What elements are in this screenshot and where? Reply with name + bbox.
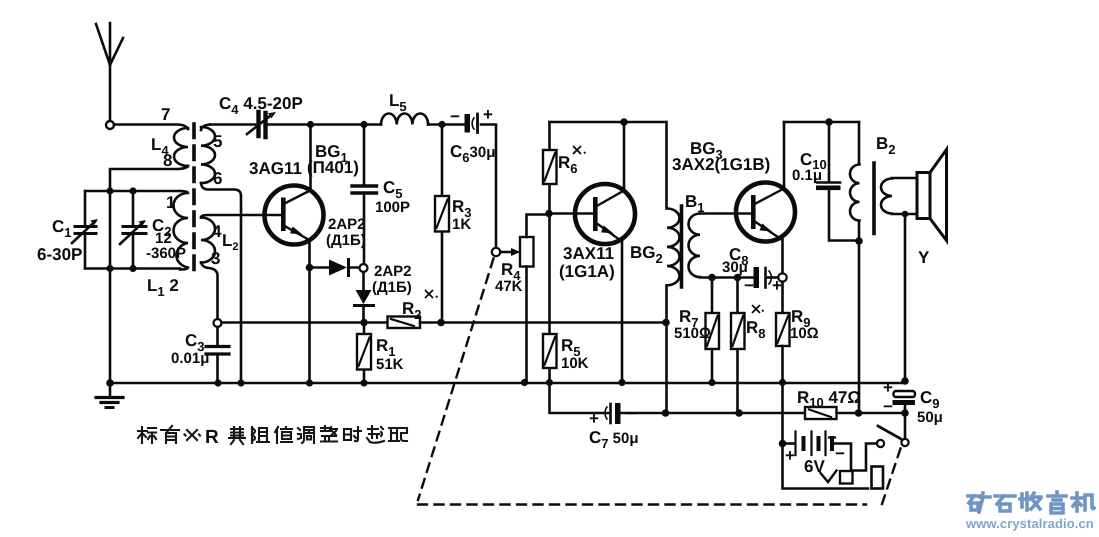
asterisk R2 [425,290,438,298]
svg-text:R6: R6 [558,153,578,176]
svg-text:2AP2: 2AP2 [374,263,412,280]
resistor R9 [776,313,790,346]
transistor BG1 [265,186,324,245]
junction dots stage2 [521,118,743,417]
capacitor C6 [465,114,478,133]
switch contact left (open circle) [877,440,884,447]
svg-text:+: + [883,378,893,397]
char biao [138,427,156,443]
wire BG2 emitter down [621,242,624,384]
inductor L5 [381,113,428,124]
asterisk R8 [752,305,764,313]
wire stage3 top [784,121,859,124]
svg-text:C5: C5 [383,178,403,201]
char kuang [968,493,990,512]
wire stage1 top left [210,123,255,126]
svg-text:50μ: 50μ [917,409,943,426]
svg-text:100P: 100P [375,199,410,216]
transformer B2 core [872,163,876,234]
svg-text:3: 3 [211,249,220,268]
svg-text:R10 47Ω: R10 47Ω [797,388,861,410]
wire L2 pin3 down to node [201,263,218,320]
junction dot ground-left [106,379,114,387]
svg-text:47K: 47K [495,278,523,295]
ground symbol [96,383,123,408]
asterisk R6 [573,146,586,154]
svg-text:3AX2(1G1B): 3AX2(1G1B) [672,155,770,174]
node BG3 emitter (open circle) [778,273,786,281]
ferrite core (dashed) [192,124,196,274]
wire B2 bottom to supply [858,241,861,413]
svg-text:www.crystalradio.cn: www.crystalradio.cn [965,516,1094,531]
switch contact right (open circle) [901,439,908,446]
wire switch to jack [853,444,877,471]
capacitor C8 [754,267,779,288]
wire C6 to R4 wiper [481,125,496,249]
resistor R10 [805,407,837,419]
junction dot battery plus [779,440,787,448]
speaker Y [917,150,947,241]
node L2-pin3 / C3 (open circle) [214,319,222,327]
char qi [229,427,245,444]
resistor R8 [731,278,745,414]
potentiometer R4 body [520,215,547,383]
svg-text:6: 6 [213,169,222,188]
char shou [1020,493,1041,510]
wire L2 pin4 to BG1 base [201,215,281,218]
transistor BG3 [736,183,795,242]
svg-text:−: − [744,276,754,295]
svg-text:L2: L2 [222,231,239,253]
potentiometer R4 wiper node (open circle) [492,248,500,256]
svg-text:(1G1A): (1G1A) [559,262,615,281]
transformer B1 primary [667,122,680,413]
svg-text:10K: 10K [561,355,589,372]
wire antenna to L4 [114,125,188,130]
svg-text:+: + [785,446,795,465]
svg-text:4: 4 [212,222,222,241]
svg-text:C4 4.5-20P: C4 4.5-20P [219,94,303,117]
transformer B1 core [680,206,684,287]
wire BG1 emitter up [309,125,312,191]
transformer B2 primary [850,122,860,241]
wire L4 bottom to tank [110,166,188,383]
svg-text:1K: 1K [452,216,471,233]
coil L3 [201,125,215,184]
svg-text:C9: C9 [920,388,940,411]
coil L4 [174,128,188,166]
jack contact zigzag [821,471,837,483]
svg-text:10Ω: 10Ω [790,325,819,342]
svg-text:−: − [626,404,636,423]
switch lever [878,426,902,440]
wire BG1 collector down [308,240,311,383]
coil L1 [174,191,189,270]
capacitor C3 [206,327,229,383]
svg-text:(Д1Б): (Д1Б) [372,279,412,296]
resistor R3 [435,125,449,323]
wire B1 secondary bottom / bias line [700,276,754,279]
svg-text:B2: B2 [876,134,896,157]
wire speaker top lead [892,177,917,180]
svg-text:+: + [483,105,493,124]
svg-text:R8: R8 [746,318,766,341]
svg-text:+: + [772,276,782,295]
svg-text:7: 7 [161,105,170,124]
char shi [995,496,1015,511]
svg-text:B1: B1 [685,192,705,215]
tank top rail [85,190,180,193]
wire speaker to C9 [904,214,907,381]
node detector (open circle) [360,264,368,272]
mechanical linkage dashed R4 to switch [418,259,901,505]
svg-text:3AX11: 3AX11 [563,244,614,263]
svg-text:−: − [835,444,845,463]
capacitor C2 [120,191,146,269]
capacitor C1 [72,191,98,269]
wire speaker bottom lead [892,213,917,216]
svg-text:C1: C1 [52,217,72,240]
char ref-mark [185,430,201,440]
wire L5 to C6 [428,123,464,126]
resistor R6 [543,122,557,213]
svg-text:BG2: BG2 [630,243,663,266]
svg-text:1: 1 [166,193,175,212]
capacitor C9 [893,391,916,413]
svg-text:0.1μ: 0.1μ [792,167,822,184]
earphone jack plug [872,467,884,489]
transistor BG2 [575,184,635,244]
wire R9 to battery plus [781,346,784,444]
wire BG2 base [549,212,593,215]
svg-text:R: R [205,427,219,448]
svg-text:-360P: -360P [146,245,186,262]
char tiao [298,427,314,443]
junction dots tank [106,187,136,272]
capacitor C10 [816,122,856,241]
wire C9 to switch [904,413,907,439]
ground rail [110,382,905,385]
svg-text:−: − [883,397,893,416]
char zhi [275,427,292,443]
capacitor C5 [352,125,377,265]
svg-text:+: + [589,409,599,428]
svg-text:(П401): (П401) [307,158,359,177]
svg-text:L1 2: L1 2 [147,276,179,299]
char ji [1072,493,1094,511]
capacitor C7 [605,403,620,424]
svg-text:−: − [450,107,460,126]
tank bottom rail [85,267,180,270]
resistor R5 [543,214,557,384]
wire detector line y=322 [222,321,388,324]
wire L3 pin6 down to ground rail [201,183,241,383]
junction dots stage3 [779,118,909,417]
wire BG2 collector up [623,122,626,191]
antenna [96,23,123,129]
char zheng [321,426,337,442]
resistor R2 [388,317,421,329]
char you [161,426,179,443]
svg-text:510Ω: 510Ω [674,325,711,342]
coil L2 [201,218,215,263]
wire BG3 collector up [783,122,786,189]
note text: marked-R values selected on adjustment [138,426,407,448]
svg-text:C7 50μ: C7 50μ [589,428,639,451]
battery 6V [783,432,852,474]
resistor R7 [706,278,720,384]
transformer B1 secondary [689,214,701,278]
battery enclosure wire [783,444,869,489]
wire C7 branch [550,383,609,413]
svg-text:Y: Y [918,248,930,267]
jack contact square [840,471,853,484]
svg-text:5: 5 [213,132,222,151]
svg-text:6-30P: 6-30P [37,245,82,264]
wire B1 secondary top to BG3 base [700,212,751,215]
svg-text:6V: 6V [804,457,825,476]
diode D2 2AP2 [355,272,374,319]
char xuan [367,426,384,443]
wire C7 to R10 [621,412,806,415]
svg-text:8: 8 [163,151,172,170]
watermark crystalradio logo [968,492,1094,513]
trimmer capacitor C4 [247,112,276,137]
diode D1 2AP2 [310,260,360,276]
char pei [389,428,407,441]
svg-text:(Д1Б): (Д1Б) [326,232,366,249]
wire stage2 top [550,121,667,124]
svg-text:C630μ: C630μ [450,142,495,165]
wire BG3 emitter down [781,240,784,314]
svg-text:L5: L5 [389,91,407,114]
char shi [344,427,361,441]
svg-text:51K: 51K [376,356,404,373]
potentiometer R4 wiper arrow [501,248,521,256]
wire stage1 top middle [268,123,381,126]
junction dots stage1 [214,121,445,387]
svg-text:0.01μ: 0.01μ [171,350,209,367]
wire R2 to B1 line [420,321,666,324]
transformer B2 secondary [881,179,892,214]
char zu [252,427,269,443]
resistor R1 [357,323,371,384]
svg-text:3AG11: 3AG11 [249,159,302,178]
wire R10 to switch [837,412,906,415]
svg-text:30μ: 30μ [722,259,748,276]
char yin [1048,492,1066,513]
svg-text:2AP2: 2AP2 [328,216,366,233]
